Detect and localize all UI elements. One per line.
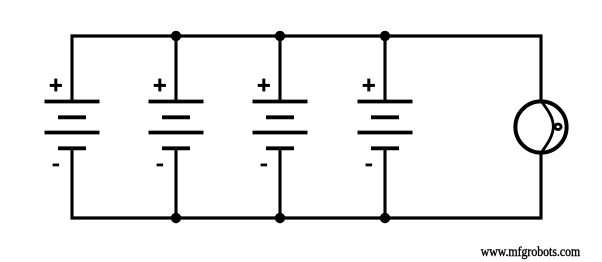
svg-text:www.mfgrobots.com: www.mfgrobots.com — [481, 244, 581, 259]
